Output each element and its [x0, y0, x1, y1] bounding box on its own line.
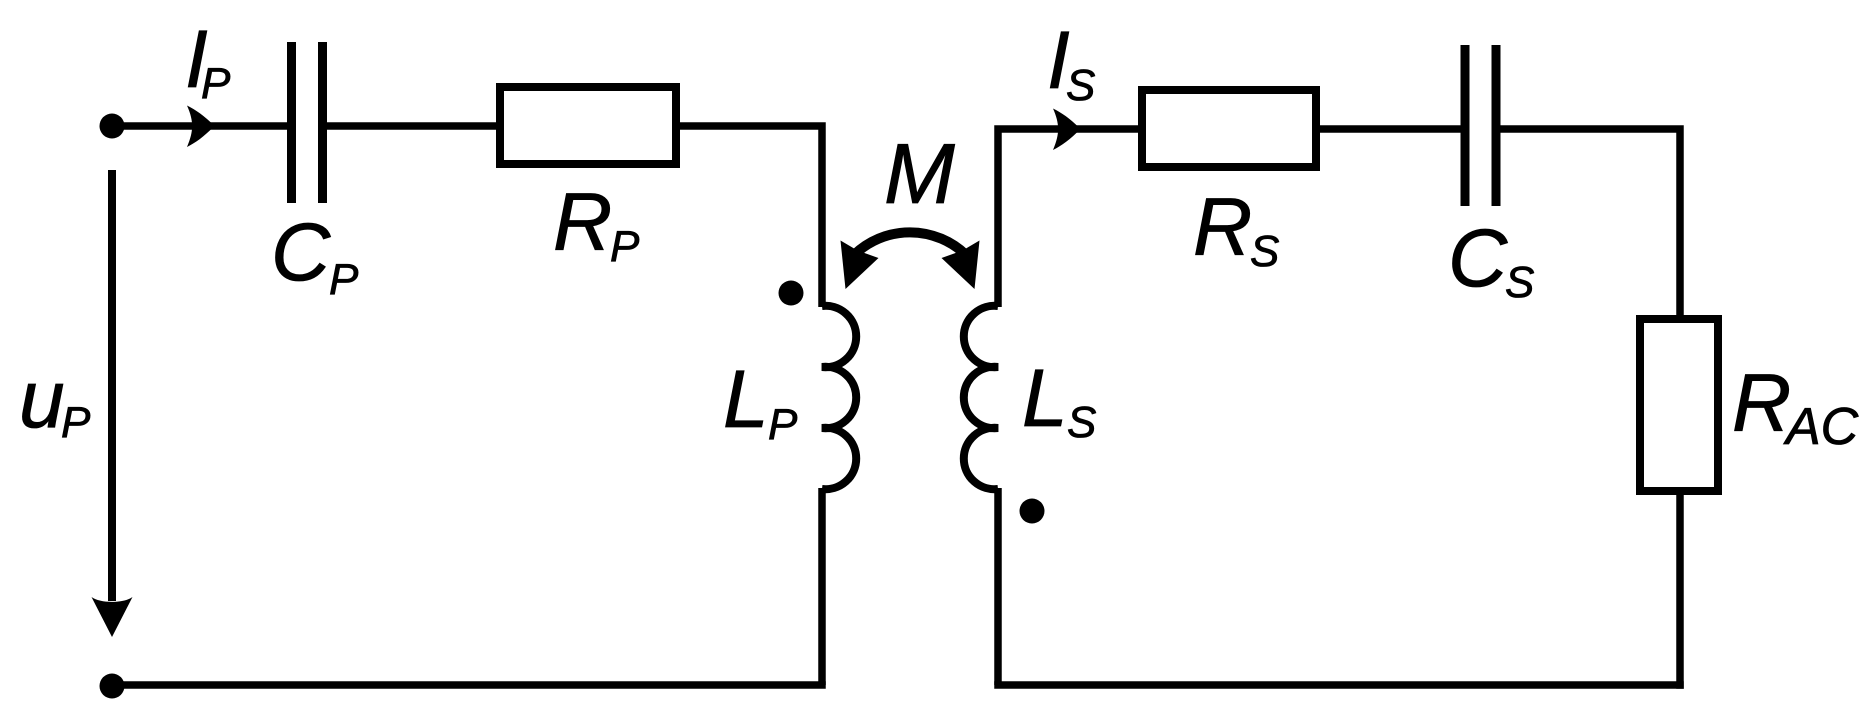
- svg-text:P: P: [61, 398, 91, 447]
- node A (top-left terminal dot): [100, 114, 125, 139]
- wire (capacitor CP to resistor RP): [325, 122, 498, 130]
- svg-text:S: S: [1250, 227, 1279, 276]
- svg-text:R: R: [1193, 182, 1252, 273]
- svg-text:P: P: [610, 222, 640, 271]
- label CS: [1448, 213, 1534, 307]
- wire (top, node A to capacitor CP): [112, 122, 289, 130]
- capacitor CS (two plates): [1465, 45, 1496, 206]
- label LS: [1022, 353, 1096, 447]
- inductor LS (coil, 3 arcs): [964, 306, 998, 489]
- svg-text:P: P: [329, 255, 359, 304]
- node B (bottom-left terminal dot): [100, 674, 125, 699]
- svg-text:u: u: [19, 354, 65, 445]
- mutual coupling arrowhead right: [942, 241, 980, 290]
- svg-text:S: S: [1066, 61, 1095, 110]
- polarity dot (LS winding): [1020, 499, 1045, 524]
- svg-text:P: P: [768, 400, 798, 449]
- svg-text:C: C: [271, 207, 331, 298]
- svg-text:AC: AC: [1783, 398, 1859, 456]
- wire (resistor RP to top-right corner of primary loop, down to LP): [676, 126, 822, 307]
- mutual coupling arrow (arc): [854, 232, 966, 255]
- voltage source arrow uP (line): [108, 170, 116, 601]
- resistor RAC (box, vertical): [1640, 319, 1718, 491]
- svg-text:M: M: [884, 127, 955, 222]
- label uP: [19, 354, 91, 447]
- svg-text:S: S: [1505, 258, 1534, 307]
- wire (RAC bottom to secondary bottom wire): [1676, 491, 1684, 689]
- svg-text:C: C: [1448, 213, 1508, 304]
- label LP: [723, 354, 798, 449]
- label IS: [1047, 15, 1095, 110]
- voltage source arrow uP (arrowhead): [92, 597, 133, 637]
- wire (capacitor CS to top-right corner, down to RAC): [1499, 129, 1680, 319]
- capacitor CP (two plates): [292, 42, 323, 203]
- resistor RS (box): [1142, 90, 1316, 167]
- label IP: [185, 14, 231, 108]
- current arrow IS (arrowhead on secondary top wire): [1053, 109, 1081, 151]
- label CP: [271, 207, 359, 304]
- svg-text:L: L: [1022, 353, 1068, 444]
- svg-text:S: S: [1067, 398, 1096, 447]
- label RAC: [1732, 358, 1859, 456]
- svg-text:L: L: [723, 354, 769, 445]
- label RP: [553, 177, 640, 271]
- wire (LS bottom to secondary bottom wire): [994, 488, 1002, 685]
- resistor RP (box): [500, 87, 676, 164]
- inductor LP (coil, 3 arcs): [822, 306, 856, 489]
- label RS: [1193, 182, 1279, 276]
- wire (LS top up to secondary top wire, to resistor RS): [998, 129, 1142, 307]
- svg-text:R: R: [1732, 358, 1791, 449]
- wire (LP bottom to primary bottom wire): [818, 488, 826, 685]
- wire (secondary bottom return): [994, 681, 1684, 689]
- svg-text:P: P: [201, 59, 231, 108]
- mutual coupling arrowhead left: [841, 241, 879, 290]
- current arrow IP (arrowhead on top wire): [187, 106, 215, 148]
- wire (primary bottom return): [112, 681, 826, 689]
- svg-text:R: R: [553, 177, 612, 268]
- polarity dot (LP winding): [779, 281, 804, 306]
- wire (resistor RS to capacitor CS): [1316, 125, 1462, 133]
